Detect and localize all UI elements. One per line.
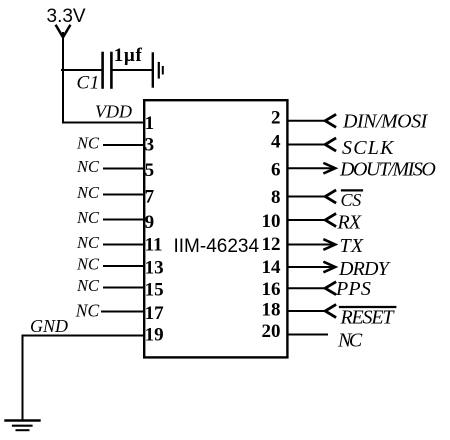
svg-text:NC: NC [76,233,100,252]
wire pin 4 [288,144,326,146]
svg-text:7: 7 [145,187,155,208]
svg-text:3.3V: 3.3V [47,6,86,27]
wire pin 18 [288,310,326,312]
wire pin 9 (NC) [104,219,144,221]
arrowhead input pin 8 [325,191,335,203]
arrowhead input pin 2 [325,115,335,127]
svg-text:RX: RX [337,212,362,234]
svg-text:4: 4 [271,132,281,153]
arrowhead input pin 10 [325,214,335,226]
ground (decoupling, sideways) [153,54,163,87]
svg-text:6: 6 [271,160,281,181]
svg-text:VDD: VDD [95,102,132,122]
wire pin 15 (NC) [104,287,144,289]
svg-text:1: 1 [145,113,155,134]
ground (main) [6,421,40,431]
svg-text:NC: NC [76,157,100,176]
wire pin 11 (NC) [104,244,144,246]
svg-text:NC: NC [75,300,100,320]
svg-text:NC: NC [76,276,100,295]
svg-text:19: 19 [145,324,164,345]
svg-text:TX: TX [340,235,364,257]
svg-text:1µf: 1µf [114,45,143,66]
wire pin 20 [288,334,328,336]
svg-text:5: 5 [145,160,155,181]
svg-text:GND: GND [30,316,68,336]
wire pin 2 [288,120,326,122]
arrowhead output pin 6 [325,163,336,173]
svg-text:NC: NC [337,330,363,352]
wire capacitor C1 to ground [113,69,152,71]
label RESET pin 18 [340,307,396,329]
wire pin 13 (NC) [104,265,144,267]
arrowhead input pin 4 [325,139,335,151]
wire pin 6 [288,167,335,169]
arrowhead output pin 14 [325,262,336,272]
svg-text:DRDY: DRDY [338,258,391,280]
svg-text:C1: C1 [77,73,100,94]
wire 3.3V rail to pin 1 (VDD) [63,33,144,123]
svg-text:13: 13 [145,258,164,279]
svg-text:NC: NC [76,183,100,202]
arrowhead input pin 18 [325,305,335,317]
svg-text:NC: NC [76,255,100,274]
svg-text:RESET: RESET [340,307,396,329]
svg-text:DIN/MOSI: DIN/MOSI [342,110,429,132]
svg-text:17: 17 [145,303,165,324]
arrowhead output pin 12 [325,240,336,250]
wire pin 17 (NC) [102,311,144,313]
svg-text:3: 3 [145,134,155,155]
svg-text:9: 9 [145,212,155,233]
wire pin 3 (NC) [104,144,144,146]
svg-text:12: 12 [262,234,281,255]
wire pin 10 [288,219,326,221]
svg-text:PPS: PPS [335,278,371,300]
wire VDD to capacitor C1 [62,69,101,71]
svg-text:DOUT/MISO: DOUT/MISO [339,159,435,181]
label CS pin 8 [341,190,363,210]
wire pin 5 (NC) [104,168,144,170]
svg-text:11: 11 [145,235,163,256]
svg-text:NC: NC [76,134,100,153]
wire GND to pin 19 [23,336,145,421]
wire pin 14 [288,266,335,268]
capacitor C1 [103,53,112,88]
svg-text:20: 20 [262,321,281,342]
svg-text:NC: NC [76,208,100,227]
svg-text:10: 10 [262,211,281,232]
wire pin 8 [288,196,326,198]
power flag 3.3V [47,6,86,37]
svg-text:IIM-46234: IIM-46234 [174,236,260,257]
IC U1 IIM-46234 body [144,100,287,357]
svg-text:SCLK: SCLK [342,137,395,159]
svg-text:8: 8 [271,187,281,208]
svg-text:15: 15 [145,279,164,300]
wire pin 12 [288,244,335,246]
svg-text:CS: CS [341,190,362,210]
svg-text:2: 2 [271,108,281,129]
svg-text:18: 18 [262,300,281,321]
wire pin 7 (NC) [104,194,144,196]
arrowhead input pin 16 [325,282,335,294]
svg-text:14: 14 [262,257,282,278]
svg-text:16: 16 [262,279,281,300]
wire pin 16 [288,287,326,289]
